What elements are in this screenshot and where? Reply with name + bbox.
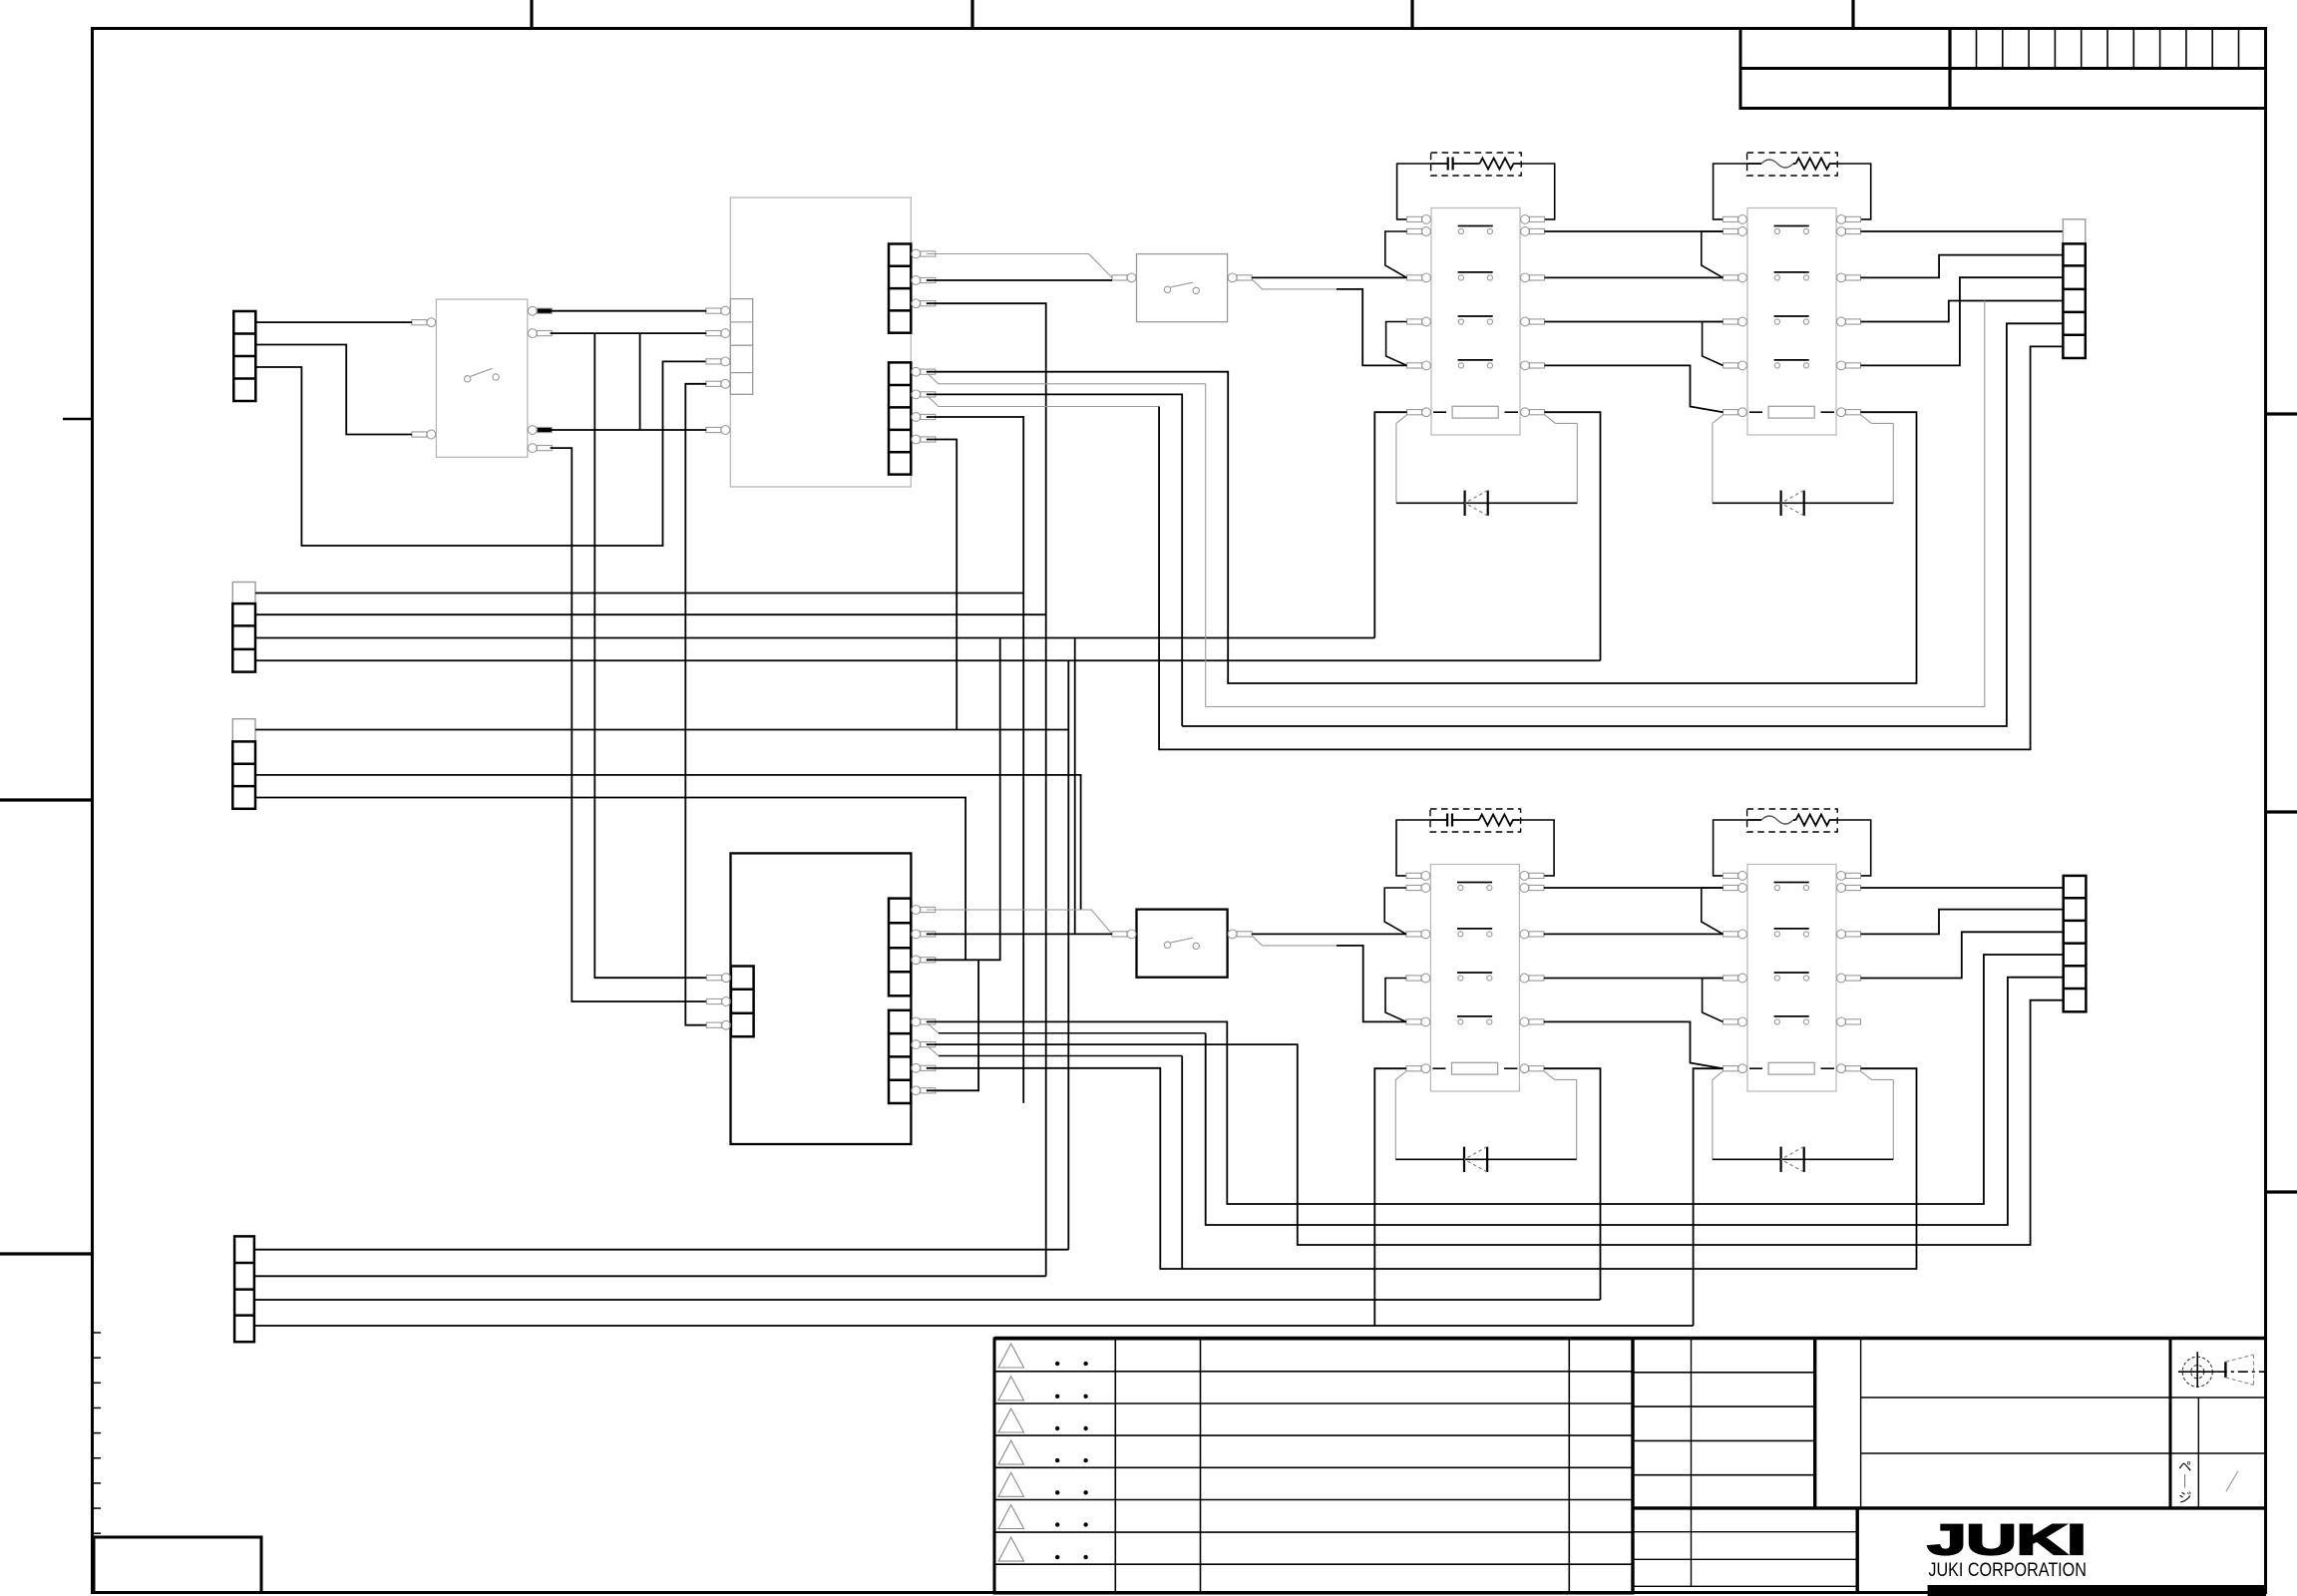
wire CN10 pin 2 to CN12 cell 6 <box>927 1000 2064 1245</box>
relay K4 socket outline <box>1713 1071 1893 1160</box>
wire CN10 pin 1 to CN12 cell 4 <box>927 955 2064 1204</box>
switch SW2 pins <box>1112 273 1252 282</box>
wire K3 row4 to K4 coil left <box>1544 1021 1723 1068</box>
wire SW2 black output to K1 row2 <box>1252 276 1406 278</box>
wire K3 coil left to CN4 cell 4 bus <box>1374 1068 1406 1326</box>
wire CN1-2 to SW1 left pin 2 <box>255 345 412 435</box>
connector CN12 (bottom right, 6 cells) <box>2064 876 2087 1011</box>
wire K1 row1 to K2 row1 <box>1545 230 1723 232</box>
relay K2 socket outline <box>1713 415 1893 504</box>
resistor R-K1 <box>1480 159 1521 170</box>
switch SW2 contact symbol <box>1164 282 1199 293</box>
relay K1 snubber dashed box <box>1431 153 1522 176</box>
relay K4 contact rows <box>1774 883 1809 1025</box>
relay K4 left pin jogs <box>1702 888 1723 934</box>
wire bus CN2 header <box>255 593 1023 595</box>
relay K4 body <box>1747 865 1836 1092</box>
svg-text:ジ: ジ <box>2178 1490 2192 1505</box>
wire K2 row2 to CN11 cell 1 <box>1861 255 2064 278</box>
wire CN7 pin 2 to CN11 cell 4 and K4 loop <box>927 394 1182 726</box>
switch SW3 box <box>1137 910 1228 978</box>
svg-text:JUKI CORPORATION: JUKI CORPORATION <box>1928 1560 2086 1581</box>
wire K4 coil right loop to CN10 pin 3 <box>927 1068 1917 1269</box>
wire CN3 cell 2 to SW3 aux bus <box>255 775 1081 910</box>
wire CN2 cell 1 horizontal <box>255 613 1046 615</box>
page number slash <box>2226 1471 2238 1492</box>
relay K3 left pin jogs <box>1384 888 1406 934</box>
relay K2 snubber dashed box <box>1747 153 1838 176</box>
connector CN8 pins <box>706 974 730 1029</box>
relay K2 snubber loop <box>1714 164 1747 219</box>
diode D-K1 <box>1396 491 1577 516</box>
wire CN7 pin 2 aux gray to CN11 cell 5 <box>928 396 1159 406</box>
wire K1 row2 to K2 row2 <box>1545 276 1723 278</box>
switch SW2 box <box>1137 254 1228 322</box>
wire CN7 pin 4 to CN3 header bus <box>927 440 957 730</box>
connector CN7 on B1 right edge lower (5 cells) <box>889 362 911 474</box>
capacitor C-K3 <box>1430 814 1479 827</box>
wire bus CN4 cell 4 <box>254 1325 1694 1327</box>
diode D-K2 <box>1713 491 1893 516</box>
wire SW1-4 down to CN8 pin 2 <box>551 448 707 1001</box>
top ruler table <box>1740 29 2266 109</box>
wire riser CN3 header to CN4 cell 1 <box>1067 660 1069 1249</box>
revision table <box>994 1339 1633 1593</box>
relay K3 coil <box>1432 1062 1517 1074</box>
wire riser CN2 cell2 bus to SW3 feed <box>1074 638 1076 935</box>
wire K4 row3 to CN12 cell 3 <box>1861 932 2064 978</box>
wire bridge SW1-2/SW1-3 <box>639 333 641 430</box>
relay K3 socket outline <box>1395 1071 1576 1160</box>
relay K2 body <box>1747 208 1836 436</box>
switch SW1 contact symbol <box>465 368 500 382</box>
connector CN5 pins <box>706 306 730 434</box>
approval table (middle) <box>1633 1339 2266 1593</box>
connector CN8 on B2 left edge (3 cells) <box>731 967 754 1037</box>
wire K1 row3 to K2 row3 <box>1545 321 1723 323</box>
title area (right) grid <box>1861 1339 2266 1508</box>
bottom-left reference box <box>94 1537 261 1593</box>
svg-text:ペ: ペ <box>2178 1459 2192 1474</box>
wire CN6 pin 3 down to CN2 cell 1 <box>927 303 1046 1276</box>
wire SW3 gray output to K3 row4 <box>1252 936 1337 946</box>
wire CN7 pin 1 aux gray to CN11 cell 3 and CN12 cell 5 <box>928 374 1206 384</box>
switch SW3 pins <box>1112 930 1252 939</box>
wire K2 row1 to CN11 header <box>1861 230 2064 232</box>
lower-left part table <box>1633 1508 1857 1593</box>
connector CN7 pins <box>912 367 936 444</box>
relay K1 coil <box>1433 406 1518 418</box>
wire K1 row4 to K2 coil left <box>1545 365 1723 412</box>
thermal fuse F-K4 <box>1747 816 1796 824</box>
capacitor C-K1 <box>1431 158 1480 171</box>
wire CN10 pin 4 riser <box>927 960 978 1090</box>
relay K3 contact rows <box>1457 883 1492 1025</box>
relay K1 socket outline <box>1396 415 1577 504</box>
unit box B1 <box>730 198 911 487</box>
wire bus CN2 cell 3 <box>255 659 1601 661</box>
thermal fuse F-K2 <box>1747 160 1796 168</box>
relay K4 pins <box>1723 872 1861 1073</box>
black bar under logo <box>1928 1585 2266 1596</box>
relay K1 body <box>1431 208 1520 436</box>
wire K2 coil right loop to CN7 pin 1 <box>927 372 1917 683</box>
wire CN9 pin 3 riser <box>927 638 1000 961</box>
wire CN7 pin 3 to CN2 header bus <box>927 417 1023 1103</box>
relay K3 body <box>1430 865 1519 1092</box>
connector CN5 on B1 left edge (4 cells) <box>730 299 752 395</box>
relay K2 contact rows <box>1774 226 1809 369</box>
wire CN9 pin 2 to SW3 left pin <box>927 933 1112 935</box>
wire K1 coil right to CN2 cell 3 bus <box>1545 412 1601 660</box>
wire CN6 pin 1 (aux) to SW2 <box>927 254 1112 278</box>
relay K1 pins <box>1407 215 1545 417</box>
left border scale ticks <box>93 1333 102 1533</box>
third-angle projection symbol <box>2178 1352 2265 1388</box>
switch SW3 contact symbol <box>1164 938 1199 949</box>
wire bus CN4 cell 3 <box>254 1299 1601 1301</box>
wire K4 row2 to CN12 cell 2 <box>1861 910 2064 935</box>
relay K4 snubber loop <box>1714 820 1747 876</box>
connector CN10 on B2 right edge lower (4 cells) <box>889 1010 911 1103</box>
unit box B2 <box>731 853 912 1144</box>
wire K2 row3 to CN11 cell 3 <box>1861 301 2064 322</box>
wire CN6 pin 2 to SW2 left pin <box>927 279 1112 281</box>
wire bus CN3 header <box>255 729 1068 731</box>
wire CN4 cell 1 horizontal <box>254 1249 1068 1251</box>
wire K2 row4 to CN11 cell 2 <box>1861 277 2064 365</box>
connector CN1 (top left, 4 cells) <box>233 311 255 401</box>
wire SW3 black output to K3 row2 <box>1252 933 1406 935</box>
wire SW1-2 down to CN8 pin 1 <box>594 333 706 978</box>
wire K3 row2 to K4 row2 <box>1544 933 1723 935</box>
wire CN9 pin 1 gray to SW3 <box>927 910 1112 934</box>
left edge tick marks <box>0 419 93 1254</box>
diode D-K3 <box>1395 1147 1576 1172</box>
relay K1 contact rows <box>1458 226 1493 369</box>
wire SW1-3 to CN5 pin 5 <box>551 429 707 431</box>
revision date dots <box>1055 1362 1088 1560</box>
wire CN3 cell 3 riser <box>255 798 965 961</box>
wire K3 row3 to K4 row3 <box>1544 978 1723 980</box>
switch SW1 box <box>436 299 527 457</box>
title block outer top edge <box>994 1337 2266 1340</box>
wire CN1-1 to SW1 left pin 1 <box>255 321 412 323</box>
switch SW1 pins <box>412 306 552 452</box>
connector CN9 on B2 right edge upper (4 cells) <box>889 899 911 997</box>
relay K2 left pin jogs <box>1702 231 1723 277</box>
resistor R-K3 <box>1479 815 1520 826</box>
connector CN2 (middle left, header cell + 3 cells) <box>232 583 255 672</box>
wire K4 row1 to CN12 cell 1 <box>1861 887 2064 889</box>
relay K3 snubber loop <box>1396 820 1430 876</box>
wire CN10 pin 2 aux <box>928 1046 939 1056</box>
wire CN10 pin 1 aux <box>928 1023 939 1033</box>
top edge tick marks <box>532 0 1853 29</box>
relay K4 snubber dashed box <box>1747 809 1838 832</box>
relay K3 snubber dashed box <box>1430 809 1521 832</box>
relay K4 coil <box>1749 1062 1834 1074</box>
wire SW1-2 to CN5 pin 2 <box>551 332 707 334</box>
wire CN4 cell 2 horizontal <box>254 1275 1046 1277</box>
wire K4 coil left drop <box>1694 1068 1723 1326</box>
resistor R-K2 <box>1796 159 1837 170</box>
relay K1 left pin jogs <box>1385 231 1407 277</box>
connector CN10 pins <box>912 1017 936 1095</box>
wire K3 coil right to CN4 cell 3 bus <box>1544 1068 1601 1300</box>
connector CN3 (middle left lower, header cell + 3 cells) <box>232 719 255 809</box>
wire CN5 pin 4 down to CN8 pin 3 <box>685 384 706 1025</box>
wire SW2 gray output to K1 row4 <box>1252 279 1337 289</box>
connector CN4 (bottom left, 4 cells) <box>234 1236 254 1342</box>
right edge tick marks <box>2266 414 2297 1192</box>
relay K2 coil <box>1749 406 1834 418</box>
wire K3 row1 to K4 row1 <box>1544 887 1723 889</box>
connector CN11 (right, header + 5 cells) <box>2063 219 2085 358</box>
wire CN1-3 to B1 connector pin 3 <box>255 361 706 546</box>
wire bus CN2 cell 2 <box>255 637 1374 639</box>
relay K2 pins <box>1723 215 1861 417</box>
connector CN6 pins <box>912 249 936 308</box>
relay K3 pins <box>1406 872 1544 1073</box>
connector CN9 pins <box>912 906 936 965</box>
wire K1 coil left to CN2 cell 2 bus <box>1374 412 1406 637</box>
connector CN6 on B1 right edge upper (4 cells) <box>889 244 911 333</box>
diode D-K4 <box>1713 1147 1893 1172</box>
svg-text:｜: ｜ <box>2178 1474 2192 1489</box>
relay K1 snubber loop <box>1397 164 1431 219</box>
revision triangles <box>998 1344 1024 1561</box>
wire SW1-1 to CN5 pin 1 <box>551 310 707 312</box>
resistor R-K4 <box>1796 815 1837 826</box>
svg-text:JUKI: JUKI <box>1928 1516 2087 1564</box>
